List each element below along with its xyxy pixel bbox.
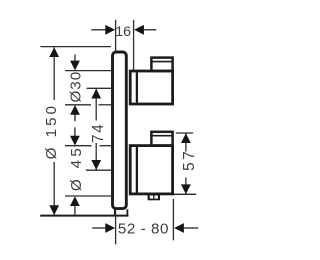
dim Ø150: top tick (40, 46, 111, 48)
long bottom line (Ø150 bottom tick) (40, 215, 128, 217)
step box below plate (115, 209, 128, 216)
dim 57: dim line segments (185, 133, 187, 151)
knob bottom edge extension (57 bottom tick) (174, 193, 197, 195)
svg-text:52 - 80: 52 - 80 (118, 221, 169, 238)
dim 74: dim line segments (95, 89, 97, 121)
svg-text:16: 16 (115, 24, 131, 40)
dim Ø150: bottom arrow (49, 205, 59, 215)
wall plate (escutcheon side view) (113, 52, 127, 209)
dim Ø30: top tick (65, 70, 111, 72)
dim 74: bottom arrow (91, 160, 101, 170)
dim 57: top arrow (181, 133, 191, 143)
bottom knob inner vertical line (136, 147, 138, 193)
bottom knob lever tab (148, 194, 160, 200)
dim Ø150: top arrow (49, 47, 59, 57)
dim 74: bottom tick (86, 169, 111, 171)
dim Ø30: bottom arrow (74, 114, 76, 122)
dim 57: bottom arrow (181, 184, 191, 194)
svg-text:57: 57 (181, 149, 198, 171)
bottom knob body (130, 146, 172, 194)
dim 74: top tick (87, 87, 111, 89)
dim Ø45: top tick (broken at 74 line) (65, 145, 92, 147)
svg-text:Ø 150: Ø 150 (43, 103, 60, 159)
dim 16: left arrow (91, 29, 106, 31)
svg-text:Ø30: Ø30 (68, 71, 85, 103)
dim Ø45: bottom arrow (74, 205, 76, 215)
dim 52-80: left extension line (115, 211, 117, 245)
dim Ø30: top arrow (74, 55, 76, 63)
bottom knob button (151, 132, 172, 146)
bottom knob button inner line (150, 135, 172, 137)
dim 16: right arrow (144, 29, 157, 31)
svg-text:Ø 45: Ø 45 (68, 145, 85, 191)
dim Ø30: bottom tick (broken at 74 line) (65, 104, 91, 106)
top knob button (151, 58, 172, 71)
dim 52-80: left arrow (92, 227, 106, 229)
dim 52-80: right extension line (172, 199, 174, 240)
dim 52-80: right arrow (184, 227, 199, 229)
dim Ø150: dim line lower segment (53, 162, 55, 215)
top knob button inner line (150, 61, 172, 63)
dim 74: top arrow (91, 89, 101, 99)
dim Ø45: top arrow (74, 127, 76, 137)
top knob inner vertical line (136, 72, 138, 102)
dim 57: top tick (176, 132, 194, 134)
top knob body (130, 71, 172, 104)
dim Ø150: dim line upper segment (53, 48, 55, 101)
dim Ø45: bottom tick (65, 195, 111, 197)
dim 16: right extension line (133, 20, 135, 70)
svg-text:74: 74 (90, 123, 107, 143)
dim 16: left extension line (115, 20, 117, 51)
